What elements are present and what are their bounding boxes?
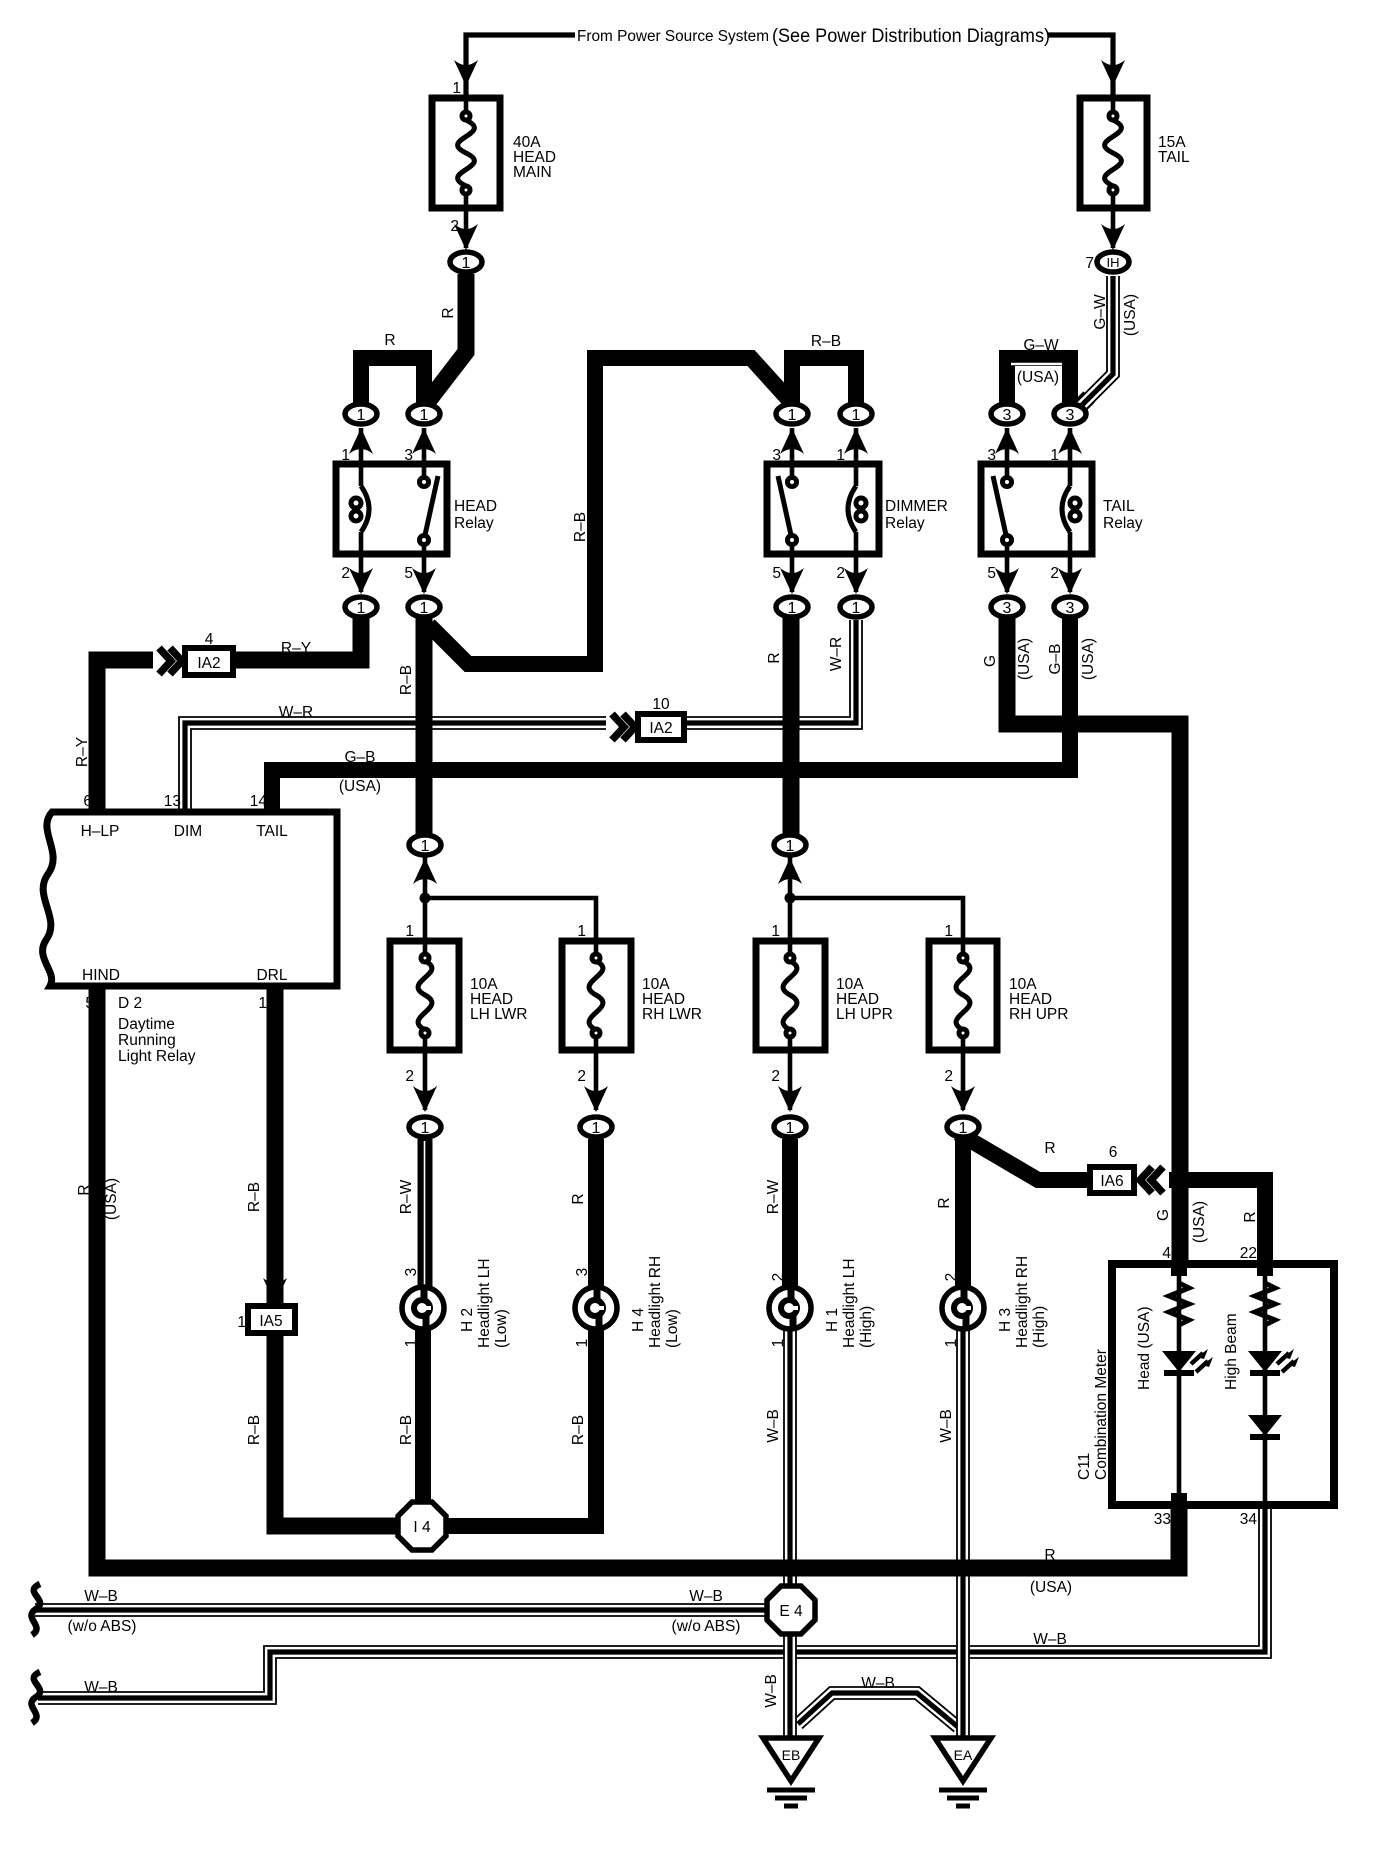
svg-text:W–B: W–B (84, 1588, 118, 1605)
connector oval 7 IH below 15A fuse (1097, 252, 1129, 272)
svg-text:2: 2 (944, 1068, 953, 1085)
svg-text:DIMMER: DIMMER (885, 498, 948, 515)
svg-text:3: 3 (404, 447, 413, 464)
wire R from HEAD RH UPR fuse connector to H3 headlight (955, 1139, 971, 1292)
wire R-B from H4 headlight down to I4 joint (444, 1325, 596, 1526)
svg-text:1: 1 (788, 600, 797, 617)
svg-text:4: 4 (205, 631, 214, 648)
svg-text:(Low): (Low) (664, 1309, 681, 1348)
connector oval H2 feed (409, 1117, 441, 1137)
dimmer relay pin3 stub (790, 428, 795, 466)
svg-text:3: 3 (1066, 407, 1075, 424)
svg-text:(See Power Distribution Diagra: (See Power Distribution Diagrams) (772, 26, 1050, 47)
svg-text:1: 1 (421, 838, 430, 855)
svg-text:1: 1 (420, 600, 429, 617)
svg-text:22: 22 (1240, 1245, 1257, 1262)
svg-text:1: 1 (592, 1120, 601, 1137)
svg-text:6: 6 (83, 793, 92, 810)
svg-text:W–B: W–B (938, 1409, 955, 1443)
svg-text:TAIL: TAIL (1103, 498, 1135, 515)
svg-text:2: 2 (1050, 565, 1059, 582)
svg-text:1: 1 (420, 407, 429, 424)
wire R branch from H3 connector to IA6 (958, 1133, 1092, 1180)
WIRES-THICK (97, 274, 1265, 1568)
wire from R connector to UPR fuse pair (788, 856, 793, 941)
connector oval head relay pin2 (345, 597, 377, 617)
head relay pin1 stub (359, 428, 364, 466)
connector IA2 number 10 (638, 714, 684, 740)
svg-text:Daytime: Daytime (118, 1016, 175, 1033)
svg-text:DIM: DIM (174, 823, 202, 840)
svg-text:Relay: Relay (1103, 515, 1143, 532)
connector oval dimmer relay pin3 (776, 404, 808, 424)
wire R from dimmer relay pin5 connector down to HEAD LH UPR branch (783, 618, 800, 849)
connector oval head relay pin5 (408, 597, 440, 617)
svg-text:3: 3 (772, 447, 781, 464)
dimmer relay pin2 stub (854, 554, 859, 592)
torn wire start mark lower (31, 1672, 40, 1723)
svg-text:Headlight LH: Headlight LH (476, 1258, 493, 1348)
svg-text:R–W: R–W (765, 1179, 782, 1214)
arrow into IA5 connector (263, 1278, 287, 1304)
connector oval R-B to LH fuses (409, 835, 441, 855)
svg-text:13: 13 (164, 793, 181, 810)
relay TAIL Relay (981, 464, 1092, 554)
arrow into dimmer relay pin1 connector (844, 428, 868, 454)
svg-text:3: 3 (987, 447, 996, 464)
svg-text:(w/o ABS): (w/o ABS) (672, 1618, 741, 1635)
chevrons into IA2(10) (606, 711, 638, 743)
connector oval tail relay pin2 (1054, 597, 1086, 617)
svg-text:H 2: H 2 (459, 1308, 476, 1332)
svg-text:7: 7 (1085, 255, 1094, 272)
svg-text:5: 5 (404, 565, 413, 582)
wire G-B (USA) from tail relay pin2 connector to D2 pin14 TAIL (272, 618, 1070, 816)
tail relay pin3 stub (1005, 428, 1010, 466)
svg-text:R: R (440, 307, 457, 318)
fuse 10A HEAD LH LWR (390, 941, 459, 1050)
wire 40A fuse pin2 to connector (464, 208, 469, 248)
HEAD LH LWR fuse pin2 stub (423, 1050, 428, 1110)
WIRES-THIN (31, 35, 1167, 1723)
wire W-B from combination meter pin34 to bottom left (38, 1497, 1265, 1698)
svg-text:HIND: HIND (82, 967, 120, 984)
head relay pin3 stub (422, 428, 427, 466)
wire G-W (USA) from IH connector to tail relay connector (1079, 276, 1113, 408)
connector oval head relay pin1 (345, 404, 377, 424)
wire R-B from D2 pin1 DRL through IA5 to I4 joint (275, 984, 400, 1526)
svg-text:High Beam: High Beam (1223, 1313, 1240, 1390)
svg-text:IA6: IA6 (1100, 1173, 1123, 1190)
svg-text:R: R (570, 1193, 587, 1204)
svg-text:R–B: R–B (398, 1415, 415, 1445)
wire G (USA) from tail relay pin5 connector to combination meter pin4 (1007, 618, 1180, 1274)
svg-text:W–B: W–B (84, 1679, 118, 1696)
svg-text:34: 34 (1240, 1511, 1258, 1528)
arrow into tail relay pin5 output connector (995, 568, 1019, 594)
HEAD LH UPR fuse pin2 stub (788, 1050, 793, 1110)
arrow up into R-B connector (413, 858, 437, 884)
arrow into head relay pin1 connector (349, 428, 373, 454)
svg-text:W–B: W–B (765, 1409, 782, 1443)
connector oval R to UPR fuses (774, 835, 806, 855)
arrow into tail relay pin2 output connector (1058, 568, 1082, 594)
svg-text:1: 1 (574, 1339, 591, 1348)
bulb H1 Headlight LH High (769, 1287, 811, 1329)
svg-text:2: 2 (771, 1068, 780, 1085)
arrow into dimmer relay pin3 connector (780, 428, 804, 454)
WIRES-MEDIUM (35, 620, 1265, 1742)
connector IA5 number 1 (248, 1306, 295, 1333)
svg-text:W–B: W–B (1033, 1631, 1067, 1648)
arrow up into R connector (778, 858, 802, 884)
torn wire start mark upper (31, 1584, 40, 1635)
svg-text:1: 1 (577, 923, 586, 940)
svg-text:(USA): (USA) (1080, 638, 1097, 680)
svg-text:W–R: W–R (279, 704, 313, 721)
svg-text:5: 5 (85, 995, 94, 1012)
svg-text:2: 2 (770, 1273, 787, 1282)
joint connector E4 octagon (767, 1586, 815, 1634)
arrow into tail relay pin1 connector (1058, 428, 1082, 454)
svg-text:1: 1 (786, 838, 795, 855)
svg-text:1: 1 (462, 255, 471, 272)
svg-text:G: G (1155, 1209, 1172, 1221)
svg-text:H–LP: H–LP (81, 823, 120, 840)
svg-text:Relay: Relay (454, 515, 494, 532)
svg-text:2: 2 (341, 565, 350, 582)
fuse 10A HEAD RH UPR (929, 941, 997, 1050)
wire R-W from HEAD LH UPR fuse connector to H1 headlight (782, 1139, 798, 1292)
svg-text:MAIN: MAIN (513, 164, 552, 181)
svg-text:D 2: D 2 (118, 995, 142, 1012)
wire R from IA6 chevrons to combination meter pin22 (1169, 1180, 1265, 1274)
svg-text:From Power Source System: From Power Source System (577, 28, 769, 45)
svg-text:W–B: W–B (689, 1588, 723, 1605)
arrow into dimmer relay pin2 output connector (844, 568, 868, 594)
svg-text:G–W: G–W (1023, 337, 1059, 354)
thick corner joining G-W diagonal to tail relay pin1 connector (1070, 397, 1089, 416)
svg-text:(Low): (Low) (493, 1309, 510, 1348)
svg-text:Light Relay: Light Relay (118, 1048, 196, 1065)
svg-text:IA5: IA5 (259, 1313, 282, 1330)
svg-text:1: 1 (788, 407, 797, 424)
svg-text:(USA): (USA) (1030, 1579, 1072, 1596)
wire R from HEAD RH LWR fuse connector to H4 headlight (588, 1139, 604, 1292)
wire R loop above head relay pins 1-3 (361, 358, 424, 414)
svg-text:R–B: R–B (572, 512, 589, 542)
connector IA2 number 4 (185, 648, 233, 675)
svg-text:1: 1 (258, 995, 267, 1012)
svg-text:6: 6 (1109, 1144, 1118, 1161)
svg-text:G: G (982, 655, 999, 667)
node junction UPR fuse pair (785, 893, 796, 904)
svg-text:1: 1 (836, 447, 845, 464)
relay DIMMER Relay (767, 464, 879, 554)
HEAD RH UPR fuse pin2 stub (961, 1050, 966, 1110)
connector oval dimmer relay pin5 (776, 597, 808, 617)
svg-text:(USA): (USA) (1122, 294, 1139, 336)
fuse 10A HEAD LH UPR (756, 941, 825, 1050)
chevrons into IA2(4) (153, 645, 185, 677)
arrow into H4 feed connector (584, 1086, 608, 1112)
relay HEAD Relay (336, 464, 447, 554)
svg-text:(w/o ABS): (w/o ABS) (68, 1618, 137, 1635)
svg-text:2: 2 (836, 565, 845, 582)
svg-text:Headlight RH: Headlight RH (1014, 1256, 1031, 1348)
ground EB (763, 1738, 819, 1806)
wire R-W from HEAD LH LWR fuse connector to H2 headlight (418, 1139, 433, 1292)
arrow into head relay pin3 connector (412, 428, 436, 454)
svg-text:G–B: G–B (1047, 643, 1064, 674)
tail relay pin2 stub (1068, 554, 1073, 592)
svg-text:Head (USA): Head (USA) (1136, 1306, 1153, 1390)
svg-text:5: 5 (987, 565, 996, 582)
svg-text:1: 1 (341, 447, 350, 464)
svg-text:H 1: H 1 (824, 1308, 841, 1332)
svg-text:1: 1 (1050, 447, 1059, 464)
svg-text:R: R (1044, 1140, 1055, 1157)
svg-text:R: R (384, 332, 395, 349)
svg-text:(High): (High) (858, 1306, 875, 1348)
svg-text:1: 1 (959, 1120, 968, 1137)
connector oval dimmer relay pin1 (840, 404, 872, 424)
svg-text:5: 5 (772, 565, 781, 582)
svg-text:1: 1 (357, 600, 366, 617)
svg-text:4: 4 (1162, 1245, 1171, 1262)
ground EA (935, 1738, 991, 1806)
resistor head indicator (1169, 1283, 1189, 1325)
svg-text:E 4: E 4 (779, 1603, 803, 1620)
svg-text:3: 3 (574, 1268, 591, 1277)
svg-text:1: 1 (405, 923, 414, 940)
svg-text:2: 2 (943, 1273, 960, 1282)
connector oval 1 below 40A fuse (450, 252, 482, 272)
svg-text:3: 3 (1066, 600, 1075, 617)
svg-text:(USA): (USA) (1017, 369, 1059, 386)
node junction LH fuse pair (420, 893, 431, 904)
svg-text:R: R (1044, 1547, 1055, 1564)
svg-text:RH UPR: RH UPR (1009, 1006, 1068, 1023)
svg-text:R–W: R–W (398, 1179, 415, 1214)
svg-text:1: 1 (852, 407, 861, 424)
chevrons into IA6 (1134, 1164, 1167, 1196)
svg-text:1: 1 (403, 1339, 420, 1348)
bulb H3 Headlight RH High (942, 1287, 984, 1329)
svg-text:W–B: W–B (763, 1674, 780, 1708)
svg-text:3: 3 (1003, 600, 1012, 617)
head relay pin5 stub (422, 554, 427, 592)
svg-text:Combination Meter: Combination Meter (1093, 1349, 1110, 1480)
relay D2 Daytime Running Light Relay (43, 812, 337, 986)
svg-text:1: 1 (852, 600, 861, 617)
arrow into H2 feed connector (413, 1086, 437, 1112)
svg-text:1: 1 (786, 1120, 795, 1137)
svg-text:R–B: R–B (246, 1415, 263, 1445)
svg-text:R–B: R–B (246, 1182, 263, 1212)
svg-text:H 3: H 3 (997, 1308, 1014, 1332)
svg-text:Headlight RH: Headlight RH (647, 1256, 664, 1348)
wire R-B from head relay pin5 connector down to HEAD LH LWR branch (416, 618, 433, 849)
svg-text:R: R (76, 1184, 93, 1195)
svg-text:33: 33 (1154, 1511, 1171, 1528)
arrow into tail relay pin3 connector (995, 428, 1019, 454)
connector oval dimmer relay pin2 (840, 597, 872, 617)
connector oval H1 feed (774, 1117, 806, 1137)
wire W-B arch jumper between EB and EA grounds (798, 1693, 958, 1727)
white core of G-W loop (1011, 363, 1062, 366)
svg-text:(USA): (USA) (1191, 1201, 1208, 1243)
head relay pin2 stub (359, 554, 364, 592)
wire R from 40A fuse connector down to head relay pin3 connector (429, 274, 466, 400)
svg-text:1: 1 (770, 1339, 787, 1348)
svg-text:C11: C11 (1076, 1453, 1093, 1480)
arrow into H1 feed connector (778, 1086, 802, 1112)
LED head indicator (1162, 1349, 1213, 1376)
arrow into H3 feed connector (951, 1086, 975, 1112)
svg-text:G–B: G–B (344, 749, 375, 766)
svg-text:3: 3 (1003, 407, 1012, 424)
svg-text:LH UPR: LH UPR (836, 1006, 893, 1023)
combination meter C11 box (1112, 1264, 1334, 1505)
svg-text:R–B: R–B (398, 665, 415, 695)
fuse 15A TAIL (1080, 98, 1147, 208)
svg-text:W–B: W–B (861, 1675, 895, 1692)
connector oval tail relay pin1 (1054, 404, 1086, 424)
svg-text:IH: IH (1107, 255, 1120, 270)
arrow into IH connector (1101, 224, 1125, 250)
connector oval H3 feed (947, 1117, 979, 1137)
fuse 40A HEAD MAIN (432, 98, 500, 208)
svg-text:IA2: IA2 (649, 720, 672, 737)
svg-text:DRL: DRL (256, 967, 287, 984)
arrow into 40A fuse output connector (454, 224, 478, 250)
svg-text:(High): (High) (1031, 1306, 1048, 1348)
svg-text:1: 1 (771, 923, 780, 940)
wire R-B branch from head relay pin5 connector to dimmer relay pin3 connector (429, 358, 789, 664)
arrow into head relay pin2 output connector (349, 568, 373, 594)
svg-text:EB: EB (782, 1747, 801, 1763)
bulb H2 Headlight LH Low (402, 1287, 444, 1329)
arrow into 15A fuse (1101, 60, 1125, 86)
wire R-B from H2 headlight down to I4 joint (415, 1325, 431, 1512)
svg-text:R: R (1242, 1211, 1259, 1222)
svg-text:2: 2 (450, 218, 459, 235)
svg-text:3: 3 (403, 1268, 420, 1277)
svg-text:G–W: G–W (1092, 294, 1109, 330)
arrow into head relay pin5 output connector (412, 568, 436, 594)
wire R-B loop above dimmer relay pins 3-1 (792, 358, 856, 414)
tail relay pin5 stub (1005, 554, 1010, 592)
svg-text:R–B: R–B (570, 1415, 587, 1445)
svg-text:Running: Running (118, 1032, 176, 1049)
svg-text:2: 2 (405, 1068, 414, 1085)
svg-text:1: 1 (943, 1339, 960, 1348)
svg-text:EA: EA (954, 1747, 973, 1763)
wire W-R from dimmer relay pin2 via IA2(10) to D2 pin13 DIM (185, 620, 856, 814)
svg-text:W–R: W–R (828, 637, 845, 671)
svg-text:10: 10 (652, 696, 670, 713)
svg-text:(USA): (USA) (339, 778, 381, 795)
svg-text:R–Y: R–Y (74, 737, 91, 767)
connector IA6 number 6 (1090, 1167, 1134, 1193)
svg-text:HEAD: HEAD (454, 498, 497, 515)
bulb H4 Headlight RH Low (575, 1287, 617, 1329)
wire from power source to 15A TAIL fuse (1048, 35, 1113, 96)
connector oval head relay pin3 (408, 404, 440, 424)
diode high beam branch (1248, 1415, 1282, 1440)
svg-text:1: 1 (421, 1120, 430, 1137)
wire G-W loop above tail relay pins 3-1 (1007, 358, 1070, 414)
connector oval H4 feed (580, 1117, 612, 1137)
svg-text:TAIL: TAIL (256, 823, 288, 840)
dimmer relay pin1 stub (854, 428, 859, 466)
wire from power source to 40A HEAD MAIN fuse (466, 35, 575, 96)
svg-text:R: R (766, 652, 783, 663)
tail relay pin1 stub (1068, 428, 1073, 466)
resistor high beam indicator (1255, 1283, 1275, 1325)
wire branch to HEAD RH LWR fuse pin1 (425, 898, 596, 941)
svg-text:H 4: H 4 (630, 1308, 647, 1333)
wire from R-B connector to LH fuse pair (423, 856, 428, 941)
HEAD RH LWR fuse pin2 stub (594, 1050, 599, 1110)
svg-text:R: R (936, 1197, 953, 1208)
svg-text:TAIL: TAIL (1158, 149, 1190, 166)
arrow into dimmer relay pin5 output connector (780, 568, 804, 594)
dimmer relay pin5 stub (790, 554, 795, 592)
connector oval tail relay pin3 (991, 404, 1023, 424)
LED high beam indicator (1248, 1349, 1299, 1376)
svg-text:R–B: R–B (811, 333, 841, 350)
wire W-B from H1 headlight through E4 to ground EB (783, 1325, 797, 1742)
wire R-Y from head relay pin2 connector through IA2(4) to D2 pin6 H-LP (97, 618, 361, 816)
arrow into 40A fuse (454, 60, 478, 86)
wire R (USA) from D2 pin5 HIND down across bottom up to combination meter pin33 (97, 984, 1179, 1568)
svg-text:14: 14 (250, 793, 268, 810)
svg-text:1: 1 (357, 407, 366, 424)
joint connector I4 octagon (398, 1502, 446, 1550)
svg-text:R–Y: R–Y (281, 640, 311, 657)
svg-text:RH LWR: RH LWR (642, 1006, 702, 1023)
svg-text:Relay: Relay (885, 515, 925, 532)
svg-text:LH LWR: LH LWR (470, 1006, 527, 1023)
svg-text:1: 1 (944, 923, 953, 940)
svg-text:I 4: I 4 (413, 1519, 431, 1536)
wire W-B from H3 headlight to ground EA (956, 1325, 970, 1742)
svg-text:1: 1 (237, 1314, 246, 1331)
wire W-B (w/o ABS) from left edge to E4 (35, 1603, 770, 1617)
svg-text:IA2: IA2 (197, 655, 220, 672)
svg-text:(USA): (USA) (1016, 638, 1033, 680)
wire branch to HEAD RH UPR fuse pin1 (790, 898, 963, 941)
fuse 10A HEAD RH LWR (562, 941, 631, 1050)
svg-text:1: 1 (452, 80, 461, 97)
svg-text:Headlight LH: Headlight LH (841, 1258, 858, 1348)
svg-text:2: 2 (577, 1068, 586, 1085)
connector oval tail relay pin5 (991, 597, 1023, 617)
wire 15A fuse pin2 to IH connector (1111, 208, 1116, 248)
svg-text:(USA): (USA) (103, 1178, 120, 1220)
